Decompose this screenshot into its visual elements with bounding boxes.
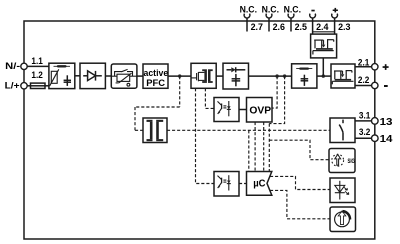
MOSFET Q1 [191, 72, 204, 81]
diode D1 [83, 75, 87, 77]
node sense 1 [275, 74, 278, 77]
rotation arc on pot [343, 211, 351, 220]
terminal circle 14 [372, 135, 379, 142]
label plus of 2.3 [333, 8, 338, 12]
capacitor C3 [303, 75, 305, 86]
node 2.4 branch [322, 74, 325, 77]
wire PFC to converter [168, 75, 191, 77]
dashed converter pin to opto U3 [196, 88, 215, 183]
terminal 2.5 [288, 14, 294, 32]
terminal 2.3 [332, 14, 338, 34]
svg-text:2.7: 2.7 [251, 21, 263, 32]
svg-text:2.4: 2.4 [316, 21, 329, 32]
terminal 2.7 [244, 14, 250, 32]
output capacitor block [292, 64, 317, 88]
redundancy MOSFET block (terminals 2.3/2.4) [311, 34, 337, 58]
wire opto to OVP [239, 109, 247, 111]
wire 2.4 block drop [322, 58, 324, 76]
dashed uC to LED [270, 176, 330, 189]
bypass switch in inrush block [111, 69, 137, 86]
label plus output [383, 64, 389, 70]
svg-text:2.2: 2.2 [358, 74, 369, 85]
optocoupler U3 block [214, 172, 239, 197]
terminal circle 2.2 [372, 82, 378, 88]
fuse F1 [31, 83, 46, 88]
signal pot block [329, 149, 355, 173]
svg-text:14: 14 [380, 134, 393, 145]
capacitor C2 [235, 74, 237, 86]
label minus of 2.4 [311, 10, 314, 12]
terminal circle 13 [372, 118, 379, 125]
dashed converter pin to opto U2 [205, 88, 214, 108]
rectifier diode block [80, 63, 105, 88]
inrush limiter block [111, 64, 137, 88]
dashed sense 2 [269, 76, 284, 124]
dashed opto U3 to uC [239, 183, 247, 185]
output pot block [330, 207, 356, 232]
terminal 2.4 [310, 14, 316, 34]
dashed wire tap down to aux [134, 107, 136, 130]
svg-text:3.2: 3.2 [359, 126, 370, 137]
dashed OVP pin A to uC [254, 122, 256, 172]
capacitor in filter [66, 75, 68, 86]
svg-text:N.C.: N.C. [240, 5, 257, 16]
svg-text:OVP: OVP [249, 106, 271, 117]
inductor in filter [54, 65, 71, 67]
dashed wire into aux transformer [135, 129, 143, 131]
terminal circle L [21, 83, 27, 89]
wire filter to rectifier [75, 75, 80, 77]
dashed wire to uC pin1 [248, 130, 250, 171]
active PFC block [143, 64, 168, 88]
input filter block [49, 63, 75, 88]
wire to terminal 2.2 [355, 85, 372, 87]
transformer T1 [204, 71, 207, 81]
wire fuse to filter [45, 85, 49, 87]
svg-text:2.3: 2.3 [338, 21, 350, 32]
wire to terminal 3.1 [355, 120, 372, 122]
dashed sense 1 to OVP [272, 76, 277, 108]
NTC thermistor [111, 75, 117, 77]
svg-text:µC: µC [253, 179, 266, 190]
terminal 2.6 [266, 14, 272, 32]
svg-text:2.5: 2.5 [295, 21, 307, 32]
wire inrush to PFC [137, 75, 143, 77]
svg-text:13: 13 [380, 117, 393, 128]
relay block K1 [330, 118, 355, 143]
wire converter to output rectifier [216, 75, 223, 77]
wire cap block to ORing [317, 75, 331, 77]
dashed wire tap horizontal [135, 106, 180, 108]
dashed control bus to relay [167, 129, 330, 131]
ORing MOSFET block [331, 64, 355, 88]
svg-text:1.1: 1.1 [31, 55, 42, 66]
microcontroller block [247, 172, 272, 196]
converter block Q1 with transformer [191, 63, 216, 88]
svg-text:SIG: SIG [348, 159, 356, 165]
dashed branch to SIG [268, 124, 270, 172]
optocoupler U2 block [214, 98, 239, 122]
dashed OVP pin B to uC [263, 122, 265, 172]
node aux tap [178, 74, 181, 77]
svg-text:L/+: L/+ [5, 80, 20, 90]
OVP block [247, 98, 273, 123]
wire output bus [249, 75, 292, 77]
terminal circle 2.1 [372, 64, 378, 70]
svg-text:N.C.: N.C. [262, 5, 279, 16]
node sense 2 [283, 74, 286, 77]
terminal circle N [21, 63, 27, 69]
varistor in filter [51, 71, 57, 83]
wire N input [27, 65, 49, 67]
svg-text:1.2: 1.2 [31, 69, 42, 80]
wire L input to fuse [27, 85, 30, 87]
wire to terminal 2.1 [355, 66, 372, 68]
svg-text:2.1: 2.1 [358, 56, 369, 67]
diode D2 [227, 69, 232, 71]
svg-text:2.6: 2.6 [273, 21, 285, 32]
svg-text:3.1: 3.1 [359, 110, 370, 121]
dashed wire PFC tap down [179, 76, 181, 107]
label minus output [384, 85, 388, 87]
LED block [330, 178, 355, 203]
aux transformer block T2 [143, 118, 167, 143]
dashed uC to pot [270, 190, 330, 218]
output rectifier block [223, 63, 249, 89]
wire to terminal 3.2 [355, 137, 372, 139]
wire rectifier to inrush limiter [105, 75, 111, 77]
svg-text:N/-: N/- [5, 61, 20, 71]
inductor L2 [296, 68, 312, 70]
svg-text:N.C.: N.C. [284, 5, 301, 16]
enclosure [24, 21, 375, 239]
svg-text:PFC: PFC [146, 77, 165, 88]
